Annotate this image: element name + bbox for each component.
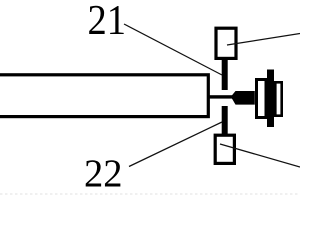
svg-text:21: 21 xyxy=(88,0,127,44)
svg-text:22: 22 xyxy=(84,151,123,195)
